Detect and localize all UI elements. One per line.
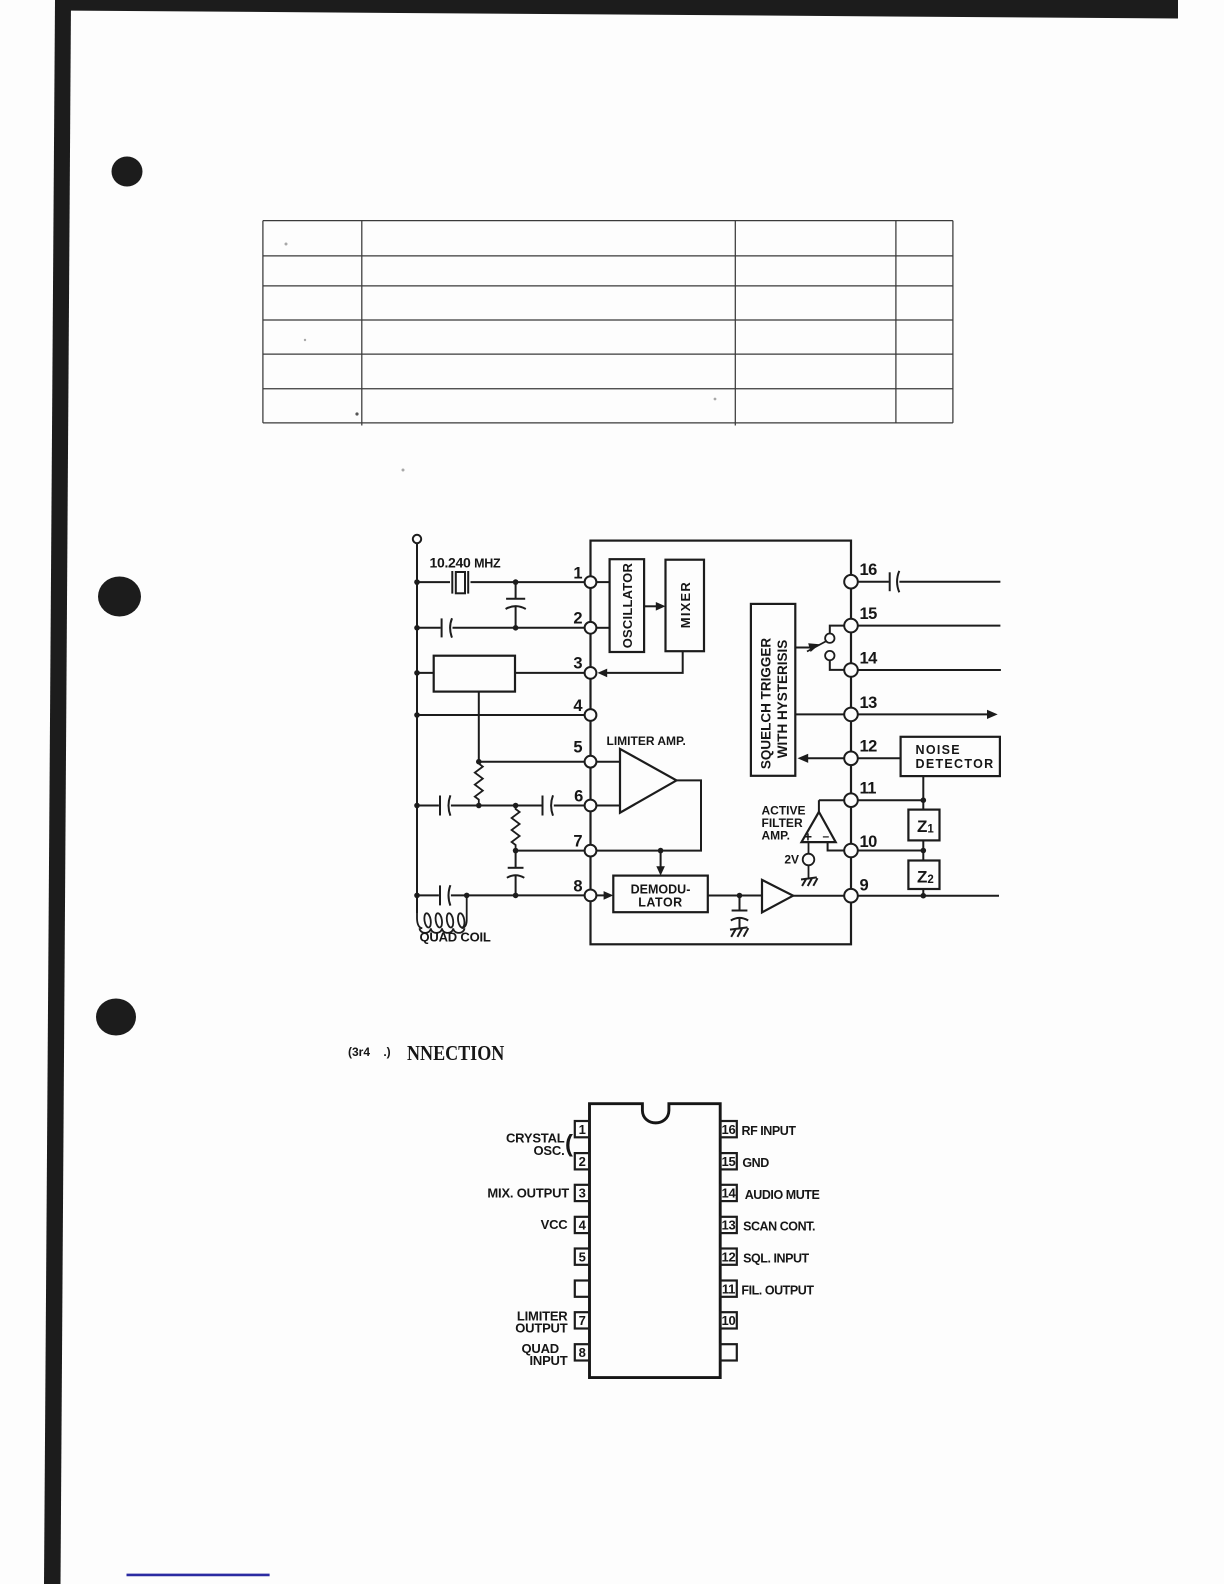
audio buffer amp triangle [762,880,793,913]
quad coil L1 [417,895,467,932]
oscillator block [610,559,645,652]
impedance Z1 [908,810,939,841]
svg-text:12: 12 [860,738,878,756]
svg-text:11: 11 [860,780,877,798]
svg-text:4: 4 [573,697,583,715]
label ACTIVE FILTER AMP. [762,804,806,843]
svg-text:OUTPUT: OUTPUT [515,1321,568,1336]
pin 9 [844,877,868,903]
wire: pin13 scan output with arrow [795,710,997,719]
svg-text:MIXER: MIXER [678,581,693,628]
wire: pin2 to oscillator [597,627,610,629]
wire: pin7 line [513,848,585,854]
svg-text:LATOR: LATOR [638,896,682,910]
pin 12 [844,738,877,765]
dip pin 3 box [575,1185,590,1201]
wire: pin11 line to Z1 net [819,797,926,803]
svg-text:VCC: VCC [541,1217,569,1232]
wire: buffer to pin9 [793,895,844,897]
dip pin 6 box (blank) [575,1281,590,1297]
svg-text:WITH HYSTERISIS: WITH HYSTERISIS [775,640,790,759]
svg-text:SCAN CONT.: SCAN CONT. [743,1220,815,1234]
binder hole punch 1 [112,157,143,187]
wire: pin2 line [414,625,584,631]
svg-text:16: 16 [860,561,878,579]
2V bias source circle [803,842,815,877]
dip pin 14 box [720,1185,737,1201]
capacitor C6 (series, pin8 line) [440,885,450,905]
svg-text:Z1: Z1 [917,817,934,836]
label LIMITER OUTPUT [515,1308,568,1335]
dip pin 13 box [720,1217,737,1233]
capacitor C4 (series, pin6 line second) [543,795,554,815]
resistor R1 (pin5 to pin6) [475,762,483,806]
svg-text:2: 2 [573,609,582,627]
svg-text:DEMODU-: DEMODU- [631,883,691,897]
svg-text:14: 14 [860,649,879,667]
ground symbol (demod cap) [730,927,748,937]
pin 3 [573,655,596,679]
svg-text:16: 16 [721,1122,735,1137]
dip pin 5 box [575,1249,590,1265]
pin 15 [844,605,877,632]
svg-text:5: 5 [573,739,582,757]
svg-text:3: 3 [579,1186,586,1201]
label SQUELCH TRIGGER WITH HYSTERISIS [759,638,791,770]
wire: pin9 output [858,893,999,899]
svg-text:OSC.: OSC. [534,1143,565,1158]
svg-text:DETECTOR: DETECTOR [916,757,995,771]
svg-text:11: 11 [722,1281,735,1296]
binder hole punch 2 [98,577,141,617]
arrow: oscillator to mixer [644,602,665,611]
svg-text:QUAD COIL: QUAD COIL [420,930,491,945]
dip pin 11 box [720,1281,737,1297]
faint scan specks [285,243,717,472]
arrow: pin8 into demodulator [597,891,614,900]
dip pin 16 box [720,1121,737,1137]
dip pin 4 box [575,1217,590,1233]
svg-text:5: 5 [579,1249,586,1264]
crystal X1 10.240 MHZ [452,571,468,594]
svg-text:(3r4 .): (3r4 .) [348,1045,391,1059]
svg-text:2: 2 [579,1154,586,1169]
svg-text:SQUELCH TRIGGER: SQUELCH TRIGGER [759,638,774,770]
wire: pin4 line [414,712,584,718]
pin 10 [844,833,877,857]
demodulator block [613,876,708,913]
svg-text:7: 7 [579,1313,586,1328]
svg-text:13: 13 [860,694,878,712]
svg-text:MIX. OUTPUT: MIX. OUTPUT [487,1186,569,1201]
svg-text:15: 15 [860,605,878,623]
wire: pin6 to limiter [597,805,621,807]
wire: pin12 from noise detector into squelch with arrow [798,754,901,763]
dip pin 7 box [575,1312,590,1328]
svg-text:1: 1 [573,565,582,583]
squelch trigger block [751,604,795,776]
wire: pin1 to oscillator [597,581,610,583]
dip pin 9 box (blank) [720,1344,737,1360]
svg-text:–: – [822,829,829,843]
svg-text:1: 1 [579,1122,586,1137]
svg-text:3: 3 [573,655,582,673]
scan border: left black bar [44,0,71,1584]
ground symbol (2V bias) [801,877,818,886]
svg-text:12: 12 [721,1249,735,1264]
svg-text:(: ( [565,1131,573,1158]
svg-text:10: 10 [721,1313,735,1328]
switch contacts at pins 15/14 [825,626,844,670]
wire: noise detector to Z1 [922,776,924,810]
wire: mixer output to pin3 with arrow [598,651,683,677]
filter block FL1 (empty box) [434,656,515,692]
wire: demodulator output [708,893,762,899]
wire: pin10 line [858,850,924,852]
wire: pin5 to limiter [597,761,621,763]
svg-text:GND: GND [742,1156,769,1170]
svg-text:7: 7 [573,832,582,850]
capacitor C7 to ground [731,896,748,928]
labels + and - inside active filter [804,829,830,845]
pin 7 [573,832,596,856]
pin 11 [844,780,876,807]
svg-text:AUDIO MUTE: AUDIO MUTE [745,1188,820,1202]
svg-text:LIMITER AMP.: LIMITER AMP. [607,734,686,748]
svg-text:4: 4 [579,1218,587,1233]
svg-text:15: 15 [721,1154,735,1169]
wire: Z1 to Z2 [921,840,927,860]
pin 16 [844,561,877,589]
mixer block [666,560,705,652]
dip pin 2 box [575,1153,590,1169]
pin 5 [573,739,596,768]
svg-text:2V: 2V [784,853,799,867]
wire: filter box drop to pin5 net [478,692,480,762]
blue pen underline bottom left [127,1574,270,1577]
capacitor C1 (pin1 to pin2) [506,582,526,628]
pin 6 [574,788,596,812]
wire: pin6 line [414,803,584,809]
scan border: top black bar [55,0,1178,19]
wire: pin3 line left [414,670,584,676]
wire: pin15 output [858,625,1001,627]
svg-text:14: 14 [721,1186,736,1201]
svg-text:RF INPUT: RF INPUT [742,1124,797,1138]
wire: pin1 line (crystal net) [414,579,584,585]
wire: pin8 line [414,893,584,899]
svg-text:NOISE: NOISE [916,743,961,757]
empty parts table [263,221,953,426]
svg-text:8: 8 [579,1345,586,1360]
svg-text:INPUT: INPUT [529,1353,567,1368]
pin 2 [573,609,596,633]
dip pin 15 box [720,1153,737,1169]
wire: Z2 down to pin9 line [922,889,924,896]
wire: left vertical bus [416,543,418,913]
wire: pin5 line [476,759,585,765]
svg-text:6: 6 [574,788,583,806]
svg-text:FIL. OUTPUT: FIL. OUTPUT [741,1283,814,1297]
DIP-16 package body with notch [590,1104,721,1378]
wire: limiter output feedback to pin7 [597,780,701,853]
dip pin 1 box [575,1121,590,1137]
svg-text:OSCILLATOR: OSCILLATOR [620,563,635,649]
svg-text:8: 8 [573,878,582,896]
pin 13 [844,694,877,721]
pin 14 [844,649,878,676]
dip pin 12 box [720,1249,737,1265]
arrow: feedback into demodulator [656,851,665,876]
label DEMODULATOR [631,883,691,910]
capacitor C5 (pin7 to pin8) [507,851,524,896]
input terminal (open circle) [413,535,421,543]
capacitor C3 (series, pin6 line) [440,795,450,815]
wire: active filter output riser to pin11 [818,800,820,812]
svg-text:10.240 MHZ: 10.240 MHZ [430,555,501,571]
svg-text:Z2: Z2 [917,867,934,886]
svg-text:SQL. INPUT: SQL. INPUT [743,1252,809,1266]
capacitor C8 (series, pin16 output) [858,571,1001,592]
label QUAD INPUT [522,1341,568,1368]
wire: active filter minus input to pin10 [828,842,845,850]
noise detector block [901,737,1000,776]
capacitor C2 (series, pin2 line) [442,618,452,637]
label NOISE DETECTOR [916,743,995,771]
pin 4 [573,697,596,721]
op-amp active filter triangle [802,812,836,842]
svg-text:AMP.: AMP. [762,829,790,843]
svg-text:10: 10 [860,833,878,851]
resistor R2 (pin6 to pin7) [512,806,520,851]
IC U1 outline [591,541,852,945]
pin 1 [573,565,596,588]
op-amp limiter triangle [620,749,677,813]
dip pin 8 box [575,1344,590,1360]
svg-text:9: 9 [860,877,869,895]
svg-text:NNECTION: NNECTION [407,1042,505,1066]
dip pin 10 box [720,1312,737,1328]
label CRYSTAL OSC. with brace [506,1130,573,1158]
pin 8 [573,878,596,902]
arrow: squelch output to switch [795,641,826,652]
impedance Z2 [908,861,939,890]
svg-text:13: 13 [721,1218,735,1233]
binder hole punch 3 [96,999,136,1036]
wire: pin14 output [858,669,1001,671]
